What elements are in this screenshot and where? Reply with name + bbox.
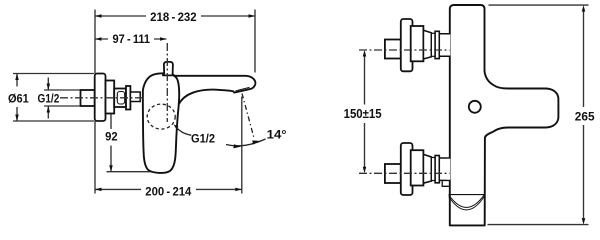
svg-text:14°: 14° xyxy=(267,127,287,141)
svg-text:97 - 111: 97 - 111 xyxy=(113,32,151,46)
svg-text:150±15: 150±15 xyxy=(344,106,382,121)
svg-text:Ø61: Ø61 xyxy=(8,91,29,105)
Ø61 extension lines xyxy=(13,74,94,122)
265 dimension xyxy=(583,8,585,222)
top cone A xyxy=(411,26,424,61)
water stream dashed 14deg xyxy=(242,94,254,140)
dimension 92 xyxy=(110,99,112,172)
svg-text:G1/2: G1/2 xyxy=(38,91,60,105)
bottom flange xyxy=(401,143,413,195)
hidden circle (shower connection) dashed xyxy=(147,104,175,129)
escutcheon piece A xyxy=(106,81,115,114)
G1/2 extension lines (pipe) xyxy=(44,90,80,106)
extension line left wall top xyxy=(94,10,96,74)
Ø61 dimension arrows xyxy=(16,74,18,122)
extension line left wall bottom xyxy=(94,121,96,194)
front button circle xyxy=(469,101,481,113)
wall flange xyxy=(95,74,106,122)
ring inner detail xyxy=(117,92,124,105)
G1/2 dimension arrows (outside) xyxy=(47,78,49,119)
ring piece B xyxy=(114,89,126,108)
outlet rim chord xyxy=(449,194,485,196)
150±15 dimension xyxy=(364,56,366,167)
centerline top connection xyxy=(359,49,450,51)
top neck xyxy=(439,34,449,56)
centerline vertical knob/body xyxy=(166,43,168,122)
top cone B xyxy=(423,30,431,59)
svg-text:92: 92 xyxy=(105,129,118,143)
top cone C ring xyxy=(431,33,435,56)
bottom cone B xyxy=(423,154,431,183)
top cone D xyxy=(435,31,439,58)
bottom cone D xyxy=(435,156,439,183)
bottom cone A xyxy=(411,150,424,185)
angle arc 14deg xyxy=(226,139,266,146)
top flange xyxy=(401,19,413,71)
svg-text:218 - 232: 218 - 232 xyxy=(150,10,197,24)
bottom cone C ring xyxy=(431,158,435,181)
vertical reference line from aerator xyxy=(241,97,243,194)
G1/2 spout leader xyxy=(176,127,192,136)
top pipe xyxy=(385,40,401,59)
diverter knob xyxy=(163,62,174,76)
svg-text:265: 265 xyxy=(575,110,595,124)
body and handle xyxy=(143,73,179,173)
outlet rim arcs xyxy=(449,195,485,210)
svg-text:G1/2: G1/2 xyxy=(191,131,215,145)
centerline horizontal left view xyxy=(60,97,145,99)
left edge gap cover for connections xyxy=(447,35,450,180)
centerline bottom connection xyxy=(359,172,450,174)
bottom neck xyxy=(439,158,449,180)
wall pipe G1/2 xyxy=(81,90,95,106)
outlet step tick xyxy=(442,181,449,186)
extension line right spout tip xyxy=(254,10,256,73)
piece C xyxy=(126,86,130,110)
spout xyxy=(155,76,255,112)
body silhouette xyxy=(450,5,559,225)
dimension 218-232 xyxy=(95,15,255,17)
dimension 200-214 xyxy=(95,188,242,190)
svg-text:200 - 214: 200 - 214 xyxy=(145,184,191,198)
dimension 97-111 xyxy=(95,38,167,40)
265 extension lines xyxy=(488,5,589,225)
bottom pipe xyxy=(385,164,401,183)
neck xyxy=(130,92,140,102)
aerator inner line xyxy=(236,87,250,90)
